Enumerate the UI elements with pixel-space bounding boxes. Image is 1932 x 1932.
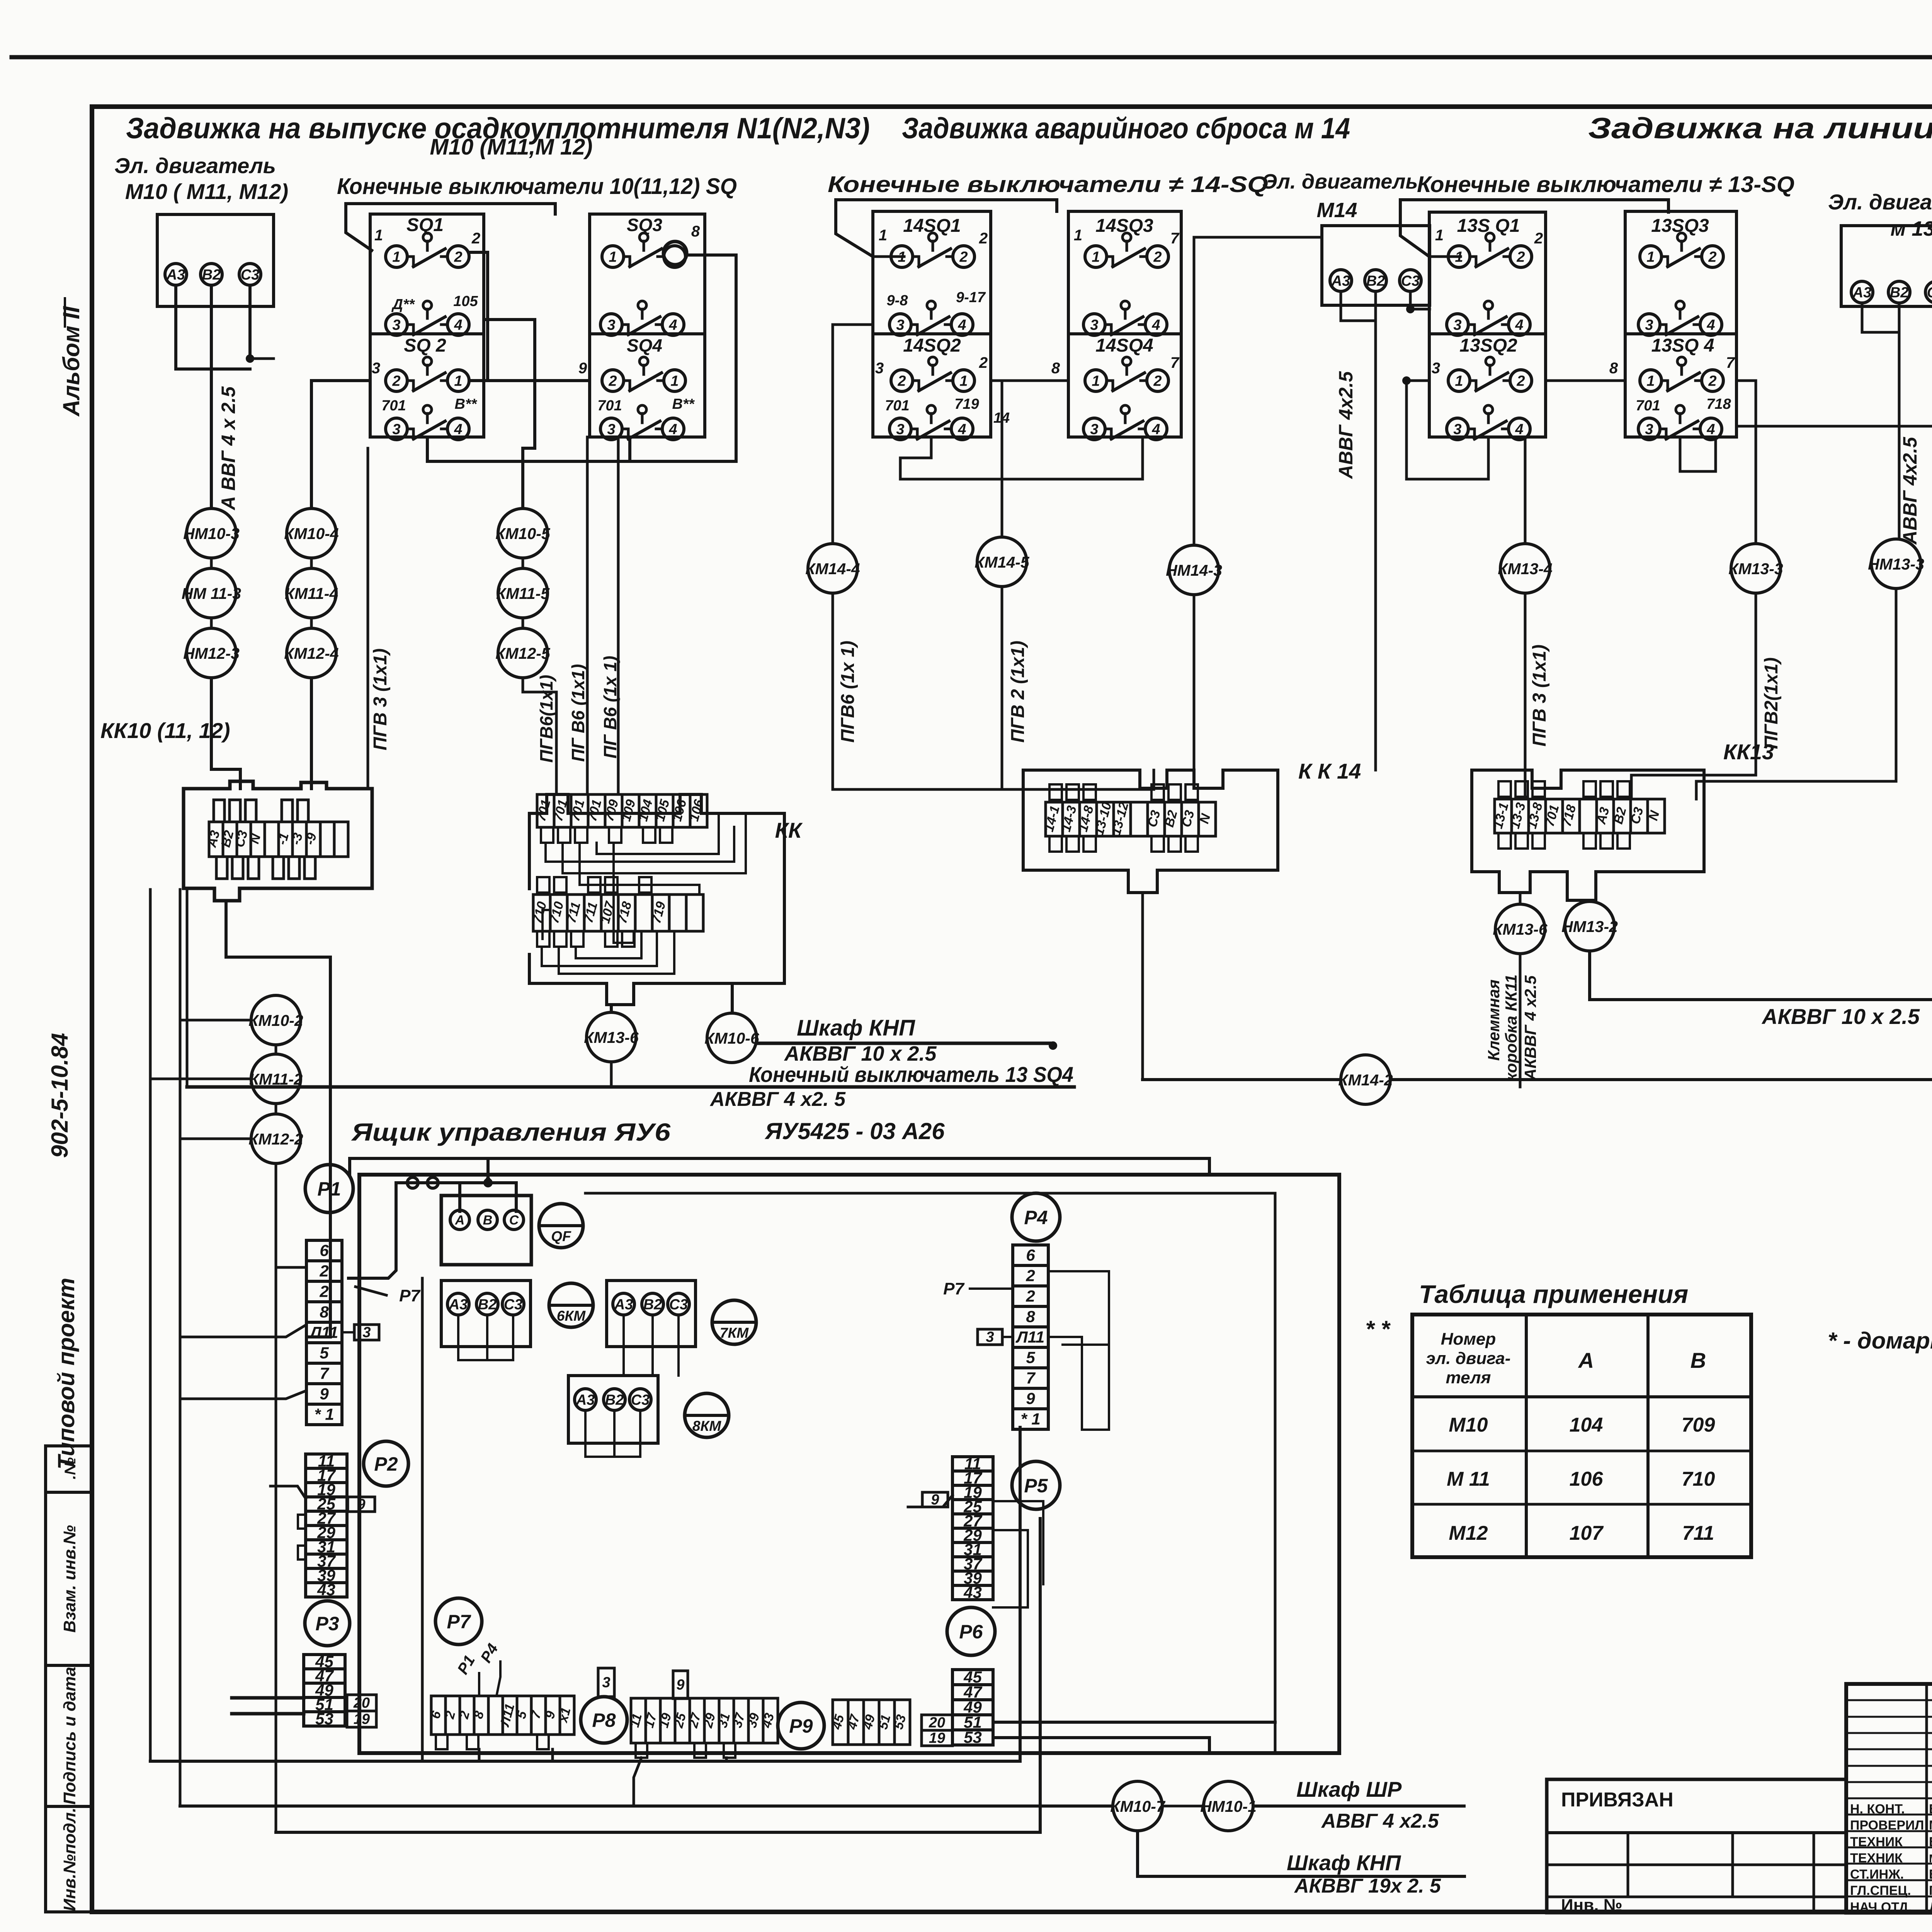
svg-text:Альбом II: Альбом II (58, 306, 84, 417)
svg-text:БАКШЕЕВА: БАКШЕЕВА (1929, 1867, 1932, 1882)
wire НМ13-1 feed (1736, 426, 1932, 547)
relay P2 (ЯУ6) (364, 1441, 408, 1486)
terminal side boxes 20/19 (P3 ЯУ6) (347, 1695, 376, 1711)
svg-text:1: 1 (1455, 373, 1463, 389)
relay P6 (ЯУ6) (947, 1607, 995, 1655)
svg-text:8: 8 (1609, 360, 1618, 377)
svg-text:В2: В2 (478, 1296, 497, 1313)
svg-text:С3: С3 (241, 267, 260, 283)
svg-text:902-5-10.84: 902-5-10.84 (47, 1033, 73, 1158)
svg-text:53: 53 (964, 1728, 982, 1746)
wire 13SQ left bus down (1406, 381, 1429, 479)
signature table (1846, 1684, 1932, 1913)
wire SQ2 left to KM10-4 (311, 381, 370, 509)
svg-text:8КМ: 8КМ (692, 1418, 721, 1434)
svg-text:НМ 11-3: НМ 11-3 (182, 585, 241, 602)
wire КМ13-6 down (КК11) (1519, 954, 1522, 1087)
wire motor M10 drops (174, 285, 177, 369)
svg-text:2: 2 (1516, 249, 1525, 265)
terminal hstrip P8 (ЯУ6) (631, 1698, 778, 1743)
terminal strip P5 (ЯУ6) (952, 1457, 993, 1600)
wire ЯУ6 top bus (350, 1158, 1209, 1175)
svg-text:5: 5 (1026, 1348, 1035, 1366)
title block outer (1846, 1684, 1932, 1913)
svg-text:709: 709 (1682, 1414, 1715, 1436)
wire КМ13-3 feed (1736, 381, 1756, 544)
svg-text:КМ10-4: КМ10-4 (284, 525, 339, 543)
svg-text:Р7: Р7 (943, 1279, 965, 1298)
wire P1 strip entries from left (276, 1266, 306, 1269)
svg-text:1: 1 (609, 249, 617, 265)
svg-text:ПГВ2(1х1): ПГВ2(1х1) (1761, 657, 1782, 749)
svg-text:Инв.№подл.: Инв.№подл. (60, 1808, 79, 1911)
svg-text:4: 4 (1515, 421, 1523, 437)
relay P7 (ЯУ6) (435, 1598, 482, 1645)
svg-text:1: 1 (374, 227, 383, 244)
terminal side box 3 (P4 ЯУ6) (978, 1329, 1002, 1345)
svg-text:А3: А3 (614, 1296, 633, 1313)
terminal strip P2 (ЯУ6) (306, 1454, 347, 1597)
svg-text:ПГВ 3 (1х1): ПГВ 3 (1х1) (370, 648, 391, 750)
motor M14 terminal C3 (1400, 270, 1421, 291)
wire bundle vertical x858 (306, 995, 330, 1337)
svg-text:14SQ4: 14SQ4 (1095, 335, 1153, 356)
limit switch 14SQ3 lower contact (1083, 314, 1105, 335)
relay P9 (ЯУ6) (778, 1702, 824, 1749)
svg-text:2: 2 (1026, 1266, 1035, 1284)
wire P2 cell25 entry (270, 1486, 306, 1498)
svg-text:3: 3 (1090, 421, 1098, 437)
svg-text:2: 2 (319, 1262, 328, 1280)
svg-text:Задвижка аварийного сброса: Задвижка аварийного сброса м 14 (902, 112, 1350, 145)
label Р7 leader (ЯУ6) (355, 1287, 386, 1295)
wire M10 switch bus top (346, 204, 555, 250)
svg-text:1: 1 (1435, 227, 1444, 244)
wire KK internal jumpers (546, 827, 734, 862)
svg-text:Р3: Р3 (315, 1613, 339, 1634)
svg-text:SQ 2: SQ 2 (404, 335, 446, 356)
svg-text:9-8: 9-8 (887, 293, 908, 309)
svg-text:1: 1 (392, 249, 400, 265)
svg-text:2: 2 (979, 354, 988, 371)
svg-text:ПГВ 3 (1х1): ПГВ 3 (1х1) (1529, 645, 1550, 747)
wire KK bottom exits (610, 1005, 613, 1012)
wire bundle vertical x466 (179, 889, 182, 1806)
svg-text:Р2: Р2 (374, 1453, 398, 1475)
svg-text:9: 9 (676, 1677, 684, 1693)
svg-text:БАКШЕЕВА: БАКШЕЕВА (1929, 1802, 1932, 1816)
svg-text:* *: * * (1365, 1316, 1391, 1342)
wire НМ14-3 down to KK14 (1193, 595, 1196, 770)
svg-text:2: 2 (959, 249, 968, 265)
svg-text:8: 8 (1026, 1307, 1035, 1325)
svg-text:20: 20 (353, 1695, 370, 1711)
wire P4 strip right jumpers (1048, 1271, 1109, 1345)
svg-text:7: 7 (1726, 354, 1735, 371)
limit switch 13SQ2 lower contact (1447, 418, 1468, 440)
svg-text:20: 20 (929, 1715, 945, 1731)
svg-text:106: 106 (1570, 1468, 1604, 1490)
svg-text:4: 4 (1515, 317, 1523, 333)
svg-text:1: 1 (670, 373, 679, 389)
limit switch box 13SQ3/13SQ4 (1625, 211, 1736, 437)
wire SQ to KK10 via x952 (367, 448, 369, 789)
svg-text:3: 3 (875, 360, 884, 377)
motor M13 terminal C3 (1925, 281, 1932, 303)
svg-text:АВВГ 4х2.5: АВВГ 4х2.5 (1899, 437, 1921, 545)
wire ABC feed drops (458, 1183, 461, 1211)
svg-text:К К 14: К К 14 (1298, 759, 1361, 783)
wire P3 entries from left (232, 1696, 304, 1700)
svg-text:В2: В2 (1890, 284, 1909, 301)
svg-text:4: 4 (668, 421, 677, 437)
svg-text:ПГВ6(1х1): ПГВ6(1х1) (536, 675, 556, 763)
wire to Шкаф КНП (757, 1042, 1053, 1045)
motor M10 terminal C3 (239, 264, 261, 285)
svg-text:ТЕХНИК: ТЕХНИК (1850, 1851, 1903, 1866)
svg-text:С3: С3 (1927, 284, 1932, 301)
wire motor M14 cable down to KK14 (1374, 321, 1377, 770)
terminal side cell 9 above (P8 ЯУ6) (673, 1671, 688, 1699)
svg-text:В: В (483, 1213, 493, 1228)
svg-text:5: 5 (320, 1344, 329, 1362)
svg-text:НМ14-3: НМ14-3 (1166, 561, 1222, 579)
svg-text:В2: В2 (605, 1392, 624, 1408)
svg-text:КМ10-5: КМ10-5 (495, 525, 551, 543)
svg-text:1: 1 (1092, 249, 1100, 265)
wire КМ14 bus to KK14 (833, 770, 1154, 789)
svg-text:ГОЛЬЦМАН: ГОЛЬЦМАН (1929, 1883, 1932, 1898)
relay coil НМ12-3 (187, 628, 236, 678)
table применения frame (1412, 1315, 1751, 1557)
wire P1 to ABC bus with isolating contacts (349, 1183, 516, 1278)
motor M10 terminal box (157, 214, 274, 306)
svg-text:КМ11-5: КМ11-5 (496, 585, 550, 602)
wire КМ10-2 feeds (182, 1019, 251, 1022)
svg-text:Р9: Р9 (789, 1715, 813, 1737)
limit switch box 14SQ3/14SQ4 (1068, 211, 1181, 437)
svg-text:Конечные выключатели ≠ 14-SQ: Конечные выключатели ≠ 14-SQ (828, 172, 1268, 197)
relay coil КМ10-6 (707, 1013, 757, 1063)
relay coil КМ13-3 (1731, 544, 1781, 593)
svg-text:3: 3 (896, 317, 904, 333)
svg-text:9: 9 (357, 1497, 365, 1513)
terminal box KK10 outline (184, 781, 372, 901)
svg-text:1: 1 (1092, 373, 1100, 389)
terminal hstrip stubs (P8 ЯУ6) (636, 1743, 647, 1758)
svg-text:4: 4 (668, 317, 677, 333)
limit switch box SQ3/SQ4 (590, 214, 705, 437)
svg-text:9: 9 (1026, 1389, 1035, 1407)
svg-text:* 1: * 1 (314, 1405, 334, 1423)
svg-text:М14: М14 (1316, 199, 1357, 222)
svg-text:Типовой проект: Типовой проект (53, 1278, 79, 1469)
svg-text:2: 2 (454, 249, 462, 265)
svg-text:В2: В2 (1366, 273, 1385, 289)
svg-text:1: 1 (454, 373, 462, 389)
svg-text:8: 8 (1051, 360, 1060, 377)
svg-text:2: 2 (1516, 373, 1525, 389)
terminal cells KK top row (537, 794, 707, 827)
svg-text:104: 104 (1570, 1414, 1603, 1436)
svg-text:719: 719 (954, 396, 979, 412)
svg-text:КМ13-6: КМ13-6 (1493, 920, 1548, 938)
svg-text:3: 3 (607, 421, 615, 437)
svg-text:7: 7 (1170, 354, 1180, 371)
wire НМ13-3 feed from motor (1895, 538, 1898, 541)
svg-text:Л11: Л11 (309, 1323, 338, 1341)
svg-text:Р6: Р6 (959, 1621, 983, 1643)
wire КМ14-4 down (832, 593, 834, 789)
svg-text:НМ10-3: НМ10-3 (183, 525, 240, 543)
svg-text:ЯУ5425 - 03 А26: ЯУ5425 - 03 А26 (764, 1118, 945, 1144)
svg-text:АКВВГ 4 х2. 5: АКВВГ 4 х2. 5 (709, 1088, 846, 1111)
svg-text:Н. КОНТ.: Н. КОНТ. (1850, 1802, 1905, 1816)
svg-text:2: 2 (1026, 1287, 1035, 1305)
limit switch 13SQ3 lower contact (1638, 314, 1660, 335)
wire KK14 bottom exit to КМ14-2 line (1141, 893, 1144, 1080)
terminal side box 9 (P5 ЯУ6) (922, 1492, 948, 1507)
wire between 14SQ boxes (991, 379, 1068, 382)
svg-text:А3: А3 (449, 1296, 468, 1313)
svg-text:Конечные выключатели 10(11,12): Конечные выключатели 10(11,12) SQ (337, 174, 737, 199)
wire КМ13-4 feed (1524, 437, 1527, 544)
wire НМ10-1 to Шкаф ШР (1253, 1804, 1464, 1808)
terminal side box 9 (P2 ЯУ6) (348, 1497, 375, 1512)
contactor 6КМ (549, 1283, 593, 1327)
svg-text:Эл. двигатель: Эл. двигатель (1262, 170, 1418, 193)
svg-text:Таблица применения: Таблица применения (1419, 1280, 1688, 1308)
svg-text:1: 1 (1646, 249, 1655, 265)
svg-text:В: В (1690, 1348, 1706, 1372)
svg-text:3: 3 (1645, 421, 1653, 437)
svg-text:КМ12-4: КМ12-4 (284, 645, 339, 662)
wire M14 top link (1194, 236, 1322, 239)
motor M14 terminal box (1322, 226, 1430, 305)
svg-text:701: 701 (885, 398, 909, 414)
svg-text:НАЧ.ОТД.: НАЧ.ОТД. (1850, 1900, 1912, 1915)
relay coil КМ14-2 (1341, 1055, 1390, 1104)
relay P1 (ЯУ6) (305, 1165, 353, 1213)
svg-text:В2: В2 (643, 1296, 662, 1313)
svg-text:КМ14-2: КМ14-2 (1338, 1071, 1393, 1089)
svg-text:2: 2 (897, 373, 906, 389)
svg-text:2: 2 (1153, 373, 1162, 389)
relay coil КМ12-5 (498, 628, 548, 678)
svg-text:3: 3 (392, 421, 400, 437)
wire КМ14-5 down (1001, 587, 1003, 789)
wire between 13SQ boxes (1546, 379, 1625, 382)
wire SQ1 output down to SQ2 (469, 252, 488, 381)
svg-text:В**: В** (672, 396, 695, 412)
wire bottom bus y4674 (180, 1804, 1112, 1808)
svg-text:АВВГ 4 х2.5: АВВГ 4 х2.5 (1321, 1810, 1439, 1832)
relay coil НМ13-3 (1871, 539, 1921, 588)
svg-text:Р1: Р1 (317, 1178, 341, 1200)
svg-text:А3: А3 (576, 1392, 595, 1408)
svg-text:13SQ 4: 13SQ 4 (1651, 335, 1714, 356)
wire between КМ10-7 and НМ10-1 (1162, 1805, 1204, 1808)
svg-text:.№: .№ (62, 1457, 79, 1479)
contactor 8КМ (685, 1393, 729, 1437)
svg-text:711: 711 (1682, 1522, 1714, 1544)
wire to Конечный выключатель 13SQ4 (187, 1085, 1074, 1089)
svg-text:1: 1 (1646, 373, 1655, 389)
svg-text:А ВВГ 4 х 2.5: А ВВГ 4 х 2.5 (218, 386, 239, 511)
terminal strip P6 (ЯУ6) (952, 1670, 993, 1745)
terminal cells KK13 (1495, 799, 1665, 833)
limit switch box SQ1/SQ2 (370, 214, 484, 437)
svg-text:Шкаф КНП: Шкаф КНП (1287, 1850, 1401, 1875)
svg-text:м 13: м 13 (1890, 217, 1932, 240)
svg-text:2: 2 (979, 230, 988, 247)
wire КМ13-6 down (610, 1062, 613, 1087)
svg-text:КМ14-5: КМ14-5 (975, 553, 1030, 571)
relay coil НМ 11-3 (187, 568, 236, 618)
svg-text:Шкаф КНП: Шкаф КНП (797, 1015, 915, 1041)
svg-text:коробка КК11: коробка КК11 (1502, 975, 1520, 1081)
relay P8 (ЯУ6) (581, 1697, 627, 1743)
svg-text:4: 4 (1706, 317, 1715, 333)
relay P4 (ЯУ6) (1012, 1193, 1060, 1241)
svg-text:А3: А3 (166, 267, 185, 283)
svg-text:Эл. двигатель: Эл. двигатель (114, 153, 276, 178)
terminal side box 3 (P1 ЯУ6) (354, 1325, 379, 1340)
svg-text:718: 718 (1706, 396, 1731, 412)
terminal cell stubs KK10 (214, 800, 224, 822)
wire M14 switch bus top (873, 255, 904, 258)
wire strip drops to bus (478, 1749, 481, 1761)
svg-text:2: 2 (1708, 373, 1716, 389)
svg-text:КМ10-7: КМ10-7 (1110, 1798, 1166, 1815)
wire SQ4 bottom stub (628, 437, 631, 461)
svg-text:М 11: М 11 (1447, 1468, 1490, 1490)
wire КМ13-3 down to KK13 (1631, 593, 1756, 799)
svg-text:4: 4 (1706, 421, 1715, 437)
svg-text:* - домаркировать: * - домаркировать (1828, 1328, 1932, 1354)
svg-text:В**: В** (454, 396, 477, 412)
svg-text:* 1: * 1 (1020, 1410, 1040, 1428)
wire between switch boxes row1 (484, 379, 590, 382)
svg-text:С3: С3 (1401, 273, 1420, 289)
wire P5 strip entries (908, 1495, 952, 1507)
svg-text:7: 7 (320, 1364, 329, 1382)
svg-text:4: 4 (957, 421, 966, 437)
svg-text:710: 710 (1682, 1468, 1715, 1490)
relay coil КМ12-4 (287, 628, 336, 678)
wire bundle vertical x389 (149, 889, 152, 1761)
svg-text:701: 701 (597, 398, 622, 414)
svg-text:9: 9 (320, 1384, 329, 1403)
svg-text:М12: М12 (1449, 1522, 1488, 1544)
svg-text:Эл. двигатель: Эл. двигатель (1828, 190, 1932, 214)
svg-text:КК13: КК13 (1723, 740, 1774, 764)
relay coil НМ10-1 (1204, 1781, 1253, 1831)
svg-text:С3: С3 (504, 1296, 523, 1313)
wire КМ10-7 down to Шкаф КНП (1138, 1831, 1464, 1876)
terminal box А3В2С3 2 (ЯУ6) (607, 1281, 696, 1347)
wire bottom bus y4554 (150, 1427, 1020, 1761)
relay coil КМ12-2 (251, 1114, 301, 1163)
svg-text:ПГВ 2 (1х1): ПГВ 2 (1х1) (1008, 641, 1028, 743)
wire НМ13-2 down then right (АКВВГ 10х2.5) (1590, 792, 1932, 1000)
limit switch SQ3 lower contact (600, 314, 622, 335)
svg-text:КМ12-5: КМ12-5 (495, 645, 551, 662)
svg-text:4: 4 (957, 317, 966, 333)
terminal hstrip P9 (ЯУ6) (833, 1700, 910, 1745)
svg-text:6КМ: 6КМ (557, 1308, 586, 1324)
svg-text:АКВВГ 10 х 2.5: АКВВГ 10 х 2.5 (1761, 1004, 1920, 1029)
svg-text:43: 43 (963, 1583, 982, 1601)
svg-text:2: 2 (319, 1282, 328, 1300)
svg-text:КМ13-6: КМ13-6 (584, 1029, 639, 1046)
terminal side cell 3 above (P7 ЯУ6) (598, 1668, 614, 1697)
svg-text:3: 3 (602, 1675, 610, 1691)
svg-text:SQ4: SQ4 (627, 335, 662, 355)
wire 14SQ2 bottom loop (900, 437, 1143, 479)
svg-text:НМ10-1: НМ10-1 (1200, 1798, 1257, 1815)
terminal hstrip P7 (ЯУ6) (431, 1696, 574, 1735)
svg-text:М10 ( М11, М12): М10 ( М11, М12) (125, 179, 288, 204)
svg-text:3: 3 (896, 421, 904, 437)
terminal box KK14 outline (1023, 770, 1278, 893)
terminal box А3В2С3 1 (ЯУ6) (441, 1281, 531, 1347)
relay coil КМ14-5 (977, 537, 1027, 587)
wire motor M13 cable down (1898, 332, 1901, 539)
terminal strip P1 (ЯУ6) (306, 1240, 342, 1425)
wire switch boxes bottom bus (427, 437, 736, 461)
svg-text:4: 4 (454, 317, 462, 333)
wire KK10 bottom exit (226, 901, 330, 995)
wire bundle vertical x484 to cable line (186, 889, 189, 1087)
svg-text:НМ13-2: НМ13-2 (1561, 918, 1618, 935)
svg-text:4: 4 (1151, 421, 1160, 437)
svg-text:Инв. №: Инв. № (1561, 1896, 1622, 1915)
wire motor M13 drops (1861, 303, 1864, 332)
wire M13 switch bus top (1429, 255, 1461, 258)
svg-text:ПРИВЯЗАН: ПРИВЯЗАН (1561, 1789, 1673, 1811)
relay P3 (ЯУ6) (305, 1601, 350, 1646)
svg-text:9: 9 (931, 1492, 939, 1508)
wire КМ13-4 down to KK13 (1524, 593, 1527, 799)
terminal cell stubs KK (541, 827, 553, 843)
wire 13SQ4 bottom loop (1680, 437, 1716, 471)
motor M10 terminal B2 (201, 264, 222, 285)
svg-text:105: 105 (453, 293, 478, 310)
wire bottom bus y4742 (276, 1519, 1040, 1832)
stamp cell Взам. инв.№ (46, 1492, 92, 1665)
svg-text:теля: теля (1446, 1368, 1491, 1387)
svg-text:Р4: Р4 (1024, 1207, 1048, 1228)
svg-text:13SQ2: 13SQ2 (1459, 335, 1517, 356)
relay coil КМ11-4 (287, 568, 336, 618)
wire motor M14 drops (1340, 291, 1342, 321)
wire 14SQ right down to КМ14-5 (991, 381, 1002, 537)
wire КМ12-4 down to KK10 (310, 678, 313, 789)
svg-text:Р8: Р8 (592, 1709, 616, 1731)
svg-text:14SQ2: 14SQ2 (903, 335, 961, 356)
svg-text:КМ13-3: КМ13-3 (1728, 560, 1783, 578)
relay coil КМ11-2 (251, 1054, 301, 1104)
wire motor M10 cable down (210, 369, 213, 509)
svg-text:19: 19 (354, 1711, 370, 1728)
svg-text:ДАНИЛОВ: ДАНИЛОВ (1929, 1900, 1932, 1915)
relay P5 (ЯУ6) (1012, 1461, 1060, 1509)
motor M13 terminal B2 (1888, 281, 1910, 303)
svg-text:М10 (М11,М 12): М10 (М11,М 12) (430, 134, 592, 160)
svg-text:Клеммная: Клеммная (1485, 980, 1503, 1061)
svg-text:АКВВГ 10 х 2.5: АКВВГ 10 х 2.5 (784, 1042, 937, 1065)
